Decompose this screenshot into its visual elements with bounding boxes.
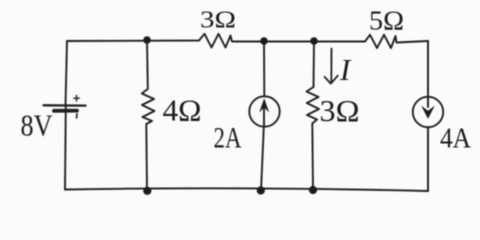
- svg-text:3Ω: 3Ω: [200, 7, 236, 34]
- svg-text:4A: 4A: [440, 123, 472, 154]
- svg-text:3Ω: 3Ω: [320, 93, 360, 128]
- svg-text:5Ω: 5Ω: [369, 5, 404, 35]
- svg-text:I: I: [339, 52, 352, 87]
- svg-text:8V: 8V: [21, 109, 53, 143]
- svg-text:2A: 2A: [214, 121, 242, 154]
- svg-text:4Ω: 4Ω: [163, 93, 202, 128]
